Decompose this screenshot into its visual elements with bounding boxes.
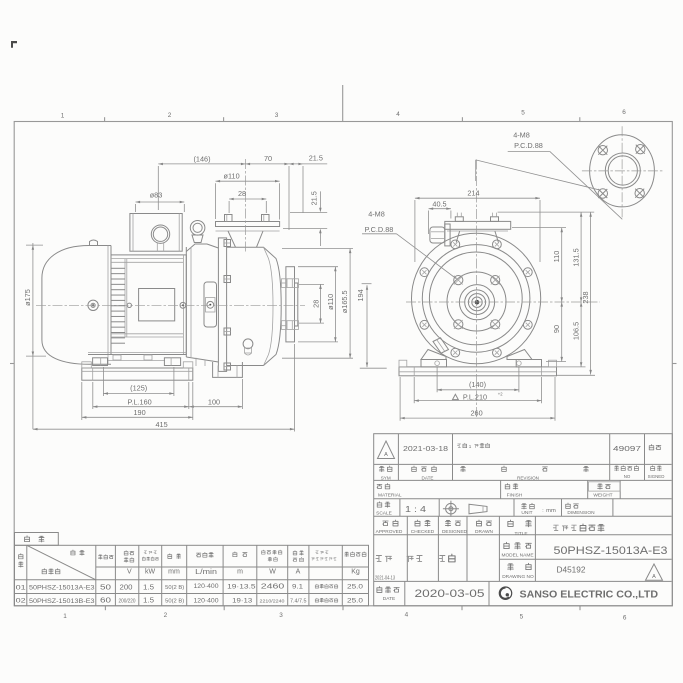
svg-text:4-M8: 4-M8 [513, 131, 530, 140]
svg-text:A: A [384, 452, 388, 458]
svg-text:mm: mm [546, 508, 556, 514]
svg-text:3: 3 [275, 112, 279, 119]
svg-text:1: 1 [469, 444, 472, 449]
svg-text:2021-03-18: 2021-03-18 [403, 444, 448, 453]
svg-text:2: 2 [164, 612, 168, 619]
svg-text:9.1: 9.1 [292, 584, 303, 591]
svg-text:49097: 49097 [613, 444, 641, 453]
mechanical seal housing [204, 282, 217, 327]
drive end bracket [186, 244, 218, 366]
svg-text:A: A [652, 574, 656, 580]
gland bolts 4-M8 [454, 276, 500, 330]
dim o175 fan cover [23, 243, 46, 429]
svg-text:SIGNED: SIGNED [648, 474, 665, 479]
svg-text:m: m [237, 569, 243, 576]
dim (125) motor feet [103, 367, 173, 396]
svg-text:2460: 2460 [261, 582, 285, 591]
front view centerlines [476, 160, 478, 420]
svg-text:01: 01 [16, 584, 27, 591]
spec table headers [18, 550, 366, 574]
discharge centerline [245, 159, 247, 252]
svg-text:P.L.160: P.L.160 [127, 398, 151, 407]
dim (146)/70/21.5 top [158, 153, 327, 230]
svg-text:1.5: 1.5 [143, 584, 154, 591]
dim 110 [552, 228, 563, 302]
dim P.L.210 [414, 377, 541, 403]
svg-text:200/220: 200/220 [119, 598, 136, 604]
suction flange bolts [282, 279, 299, 330]
svg-text:SANSO ELECTRIC CO.,LTD: SANSO ELECTRIC CO.,LTD [520, 589, 659, 600]
svg-text:190: 190 [134, 408, 146, 417]
svg-text:100: 100 [208, 398, 220, 407]
lower-left drain boss [433, 338, 449, 353]
svg-text:4-M8: 4-M8 [368, 210, 385, 219]
svg-text:6: 6 [623, 615, 627, 622]
svg-text:60: 60 [100, 598, 111, 605]
dim (140) [437, 368, 519, 393]
flange detail bore circles [605, 153, 640, 188]
label 4-M8 PCD88 detail [508, 131, 550, 152]
svg-text:40.5: 40.5 [432, 199, 446, 208]
svg-text:FINISH: FINISH [507, 493, 523, 499]
motor frame body [111, 246, 186, 355]
svg-text:3: 3 [279, 612, 283, 619]
svg-text:P.L.210: P.L.210 [463, 393, 487, 402]
date row [377, 587, 485, 602]
dim 190 base length [82, 382, 193, 420]
dim 131.5 [571, 212, 582, 302]
front view casing rim circle [422, 245, 530, 353]
side border zone ticks [10, 363, 677, 365]
front view casing outer profile [412, 233, 541, 364]
svg-text:50(2 B): 50(2 B) [165, 585, 184, 591]
casing plate bolts [224, 240, 231, 371]
dim 28 suction bolts vertical [299, 284, 324, 323]
svg-text:28: 28 [238, 189, 246, 198]
svg-text:260: 260 [471, 409, 483, 418]
svg-text::: : [542, 508, 543, 514]
label 4-M8 PCD88 front view [362, 210, 456, 279]
svg-text:4: 4 [396, 111, 400, 118]
motor frame mid mark [180, 302, 186, 308]
svg-text:DRAWING NO: DRAWING NO [502, 574, 534, 580]
svg-text:200: 200 [120, 583, 133, 592]
svg-text:4: 4 [405, 612, 409, 619]
front view rim bolts [420, 240, 532, 357]
revision header row [379, 466, 664, 481]
dim 415 overall length [33, 344, 295, 432]
svg-text:1: 1 [61, 113, 65, 120]
top zone numbers 1-6 [61, 109, 627, 119]
front view cover plate circle [429, 252, 522, 345]
svg-text:21.5: 21.5 [310, 191, 319, 205]
svg-text:7.4/7.5: 7.4/7.5 [290, 598, 307, 604]
spec table units row [127, 569, 360, 576]
drawing sheet border frame [14, 122, 672, 606]
pump centerline left view [36, 304, 305, 306]
discharge flange bolts [225, 215, 270, 222]
svg-text:DATE: DATE [383, 596, 395, 602]
svg-text:50PHSZ-15013A-E3: 50PHSZ-15013A-E3 [29, 585, 95, 592]
material finish weight row [377, 482, 620, 499]
svg-text:mm: mm [168, 569, 180, 576]
front view base bed [399, 360, 557, 376]
spec table row 02 [16, 597, 364, 605]
dim o110 suction vertical [298, 267, 338, 342]
lifting eyebolt [190, 221, 205, 243]
spec table tab [15, 533, 59, 546]
motor feet [88, 353, 186, 366]
dim o83 terminal box [136, 190, 185, 212]
svg-text:ø110: ø110 [224, 172, 240, 181]
svg-text:28: 28 [311, 300, 320, 308]
svg-text:2: 2 [168, 112, 172, 119]
svg-text:19·13: 19·13 [232, 598, 253, 605]
fan cover top plug [90, 240, 98, 246]
svg-text:1.5: 1.5 [143, 598, 154, 605]
svg-text:1 : 4: 1 : 4 [405, 504, 426, 514]
svg-text:19·13.5: 19·13.5 [227, 583, 256, 590]
svg-text:MATERIAL: MATERIAL [378, 493, 402, 499]
svg-text:WEIGHT: WEIGHT [593, 493, 612, 499]
svg-text:ø110: ø110 [326, 294, 335, 310]
scan speck top-left [11, 41, 17, 48]
flange detail outer circle [590, 135, 655, 207]
dim 238 [581, 212, 592, 374]
svg-text:UNIT: UNIT [521, 510, 532, 516]
svg-text:TITLE: TITLE [514, 531, 527, 537]
approval header row [376, 520, 532, 537]
dim P.L.160 base slots [93, 382, 189, 409]
title value [553, 525, 558, 530]
dim 100 casing foot [189, 379, 242, 409]
terminal box conduit hole [151, 225, 169, 251]
svg-text:+2: +2 [498, 391, 503, 396]
front discharge flange plate [445, 221, 511, 231]
svg-text:131.5: 131.5 [571, 248, 580, 266]
dim 106.5 [571, 302, 582, 367]
motor cooling fins [111, 268, 125, 343]
svg-text:50PHSZ-15013B-E3: 50PHSZ-15013B-E3 [29, 598, 95, 605]
svg-text:415: 415 [156, 420, 168, 429]
svg-text:2021-04-13: 2021-04-13 [375, 575, 395, 581]
dim 90 [552, 302, 563, 362]
svg-text:70: 70 [264, 154, 272, 163]
svg-text:106.5: 106.5 [571, 322, 580, 340]
svg-text:2210/2240: 2210/2240 [260, 598, 285, 604]
dim 260 [400, 377, 555, 421]
dim o110 discharge flange [216, 172, 280, 220]
svg-text:W: W [269, 569, 276, 576]
revision row [378, 441, 661, 459]
company logo [499, 587, 658, 600]
svg-text:(125): (125) [130, 383, 147, 392]
discharge neck [228, 231, 263, 247]
terminal box [130, 214, 182, 252]
svg-text:02: 02 [16, 598, 27, 605]
bottom zone numbers 1-6 [63, 612, 627, 622]
top border zone ticks [105, 85, 580, 122]
svg-text:P.C.D.88: P.C.D.88 [365, 225, 394, 234]
left view: motor fan cover [42, 246, 111, 365]
svg-text:DRAWN: DRAWN [475, 529, 493, 535]
bottom border zone ticks [105, 606, 580, 610]
leader lines to detail [476, 151, 623, 219]
svg-text:REVISION: REVISION [517, 475, 539, 480]
svg-text:120·400: 120·400 [194, 597, 220, 604]
flange detail centerlines [582, 126, 663, 217]
title block grid [374, 434, 673, 606]
svg-text:ø83: ø83 [150, 190, 163, 199]
flange detail bolt holes [598, 145, 645, 199]
svg-text:Kg: Kg [351, 569, 360, 576]
svg-text:5: 5 [521, 110, 525, 117]
svg-text:DESIGNED: DESIGNED [442, 529, 468, 535]
svg-text:SCALE: SCALE [376, 511, 392, 517]
svg-text:L/min: L/min [195, 569, 217, 576]
front view gland circle [447, 272, 506, 331]
svg-text:21.5: 21.5 [309, 153, 323, 162]
priming plug hex fitting [430, 224, 450, 246]
dim o165.5 casing vertical [282, 249, 353, 359]
suction flange [281, 267, 298, 342]
svg-text:50PHSZ-15013A-E3: 50PHSZ-15013A-E3 [554, 545, 668, 557]
dim 194 overall height [356, 284, 387, 369]
front view shaft circles [459, 285, 494, 320]
motor bearing boss left [88, 300, 98, 310]
signatures [375, 554, 455, 581]
motor shaft center mark [127, 303, 131, 307]
casing back plate [218, 238, 226, 372]
svg-text:50(2 B): 50(2 B) [165, 599, 184, 605]
scale row [376, 501, 595, 517]
svg-text:5: 5 [520, 614, 524, 621]
svg-text:25.0: 25.0 [347, 597, 363, 604]
front flange studs [455, 213, 498, 222]
dim 40.5 [429, 199, 451, 234]
svg-text:25.0: 25.0 [347, 584, 363, 591]
svg-text:2020-03-05: 2020-03-05 [415, 588, 485, 600]
svg-text:ø165.5: ø165.5 [340, 290, 349, 313]
svg-text:DIMENSION: DIMENSION [567, 510, 595, 516]
model name row [501, 542, 667, 558]
drawing no row [502, 563, 662, 580]
dim 214 [415, 189, 540, 262]
svg-text:(146): (146) [193, 154, 210, 163]
svg-text:A: A [296, 569, 301, 576]
discharge flange left view [216, 222, 280, 232]
pump casing shell [227, 247, 282, 365]
svg-text:DATE: DATE [422, 475, 434, 480]
spec table grid [15, 545, 369, 606]
svg-text:NO: NO [624, 474, 631, 479]
svg-text:APPROVED: APPROVED [376, 529, 403, 535]
svg-text:1: 1 [63, 613, 67, 620]
svg-text:90: 90 [552, 325, 561, 333]
svg-text:110: 110 [552, 251, 561, 263]
front view feet [421, 350, 542, 367]
svg-text:CHECKED: CHECKED [411, 529, 435, 535]
dim 28 discharge bolts [229, 189, 266, 213]
svg-text:V: V [127, 569, 132, 576]
spec table row 01 [16, 582, 364, 592]
svg-text:SYM: SYM [381, 475, 391, 480]
svg-text:MODEL NAME: MODEL NAME [501, 553, 533, 559]
front right extension lines [498, 212, 595, 375]
front discharge neck [456, 231, 498, 242]
svg-text:120·400: 120·400 [194, 583, 220, 590]
svg-text:P.C.D.88: P.C.D.88 [514, 141, 543, 150]
casing foot [213, 362, 243, 377]
svg-text:50: 50 [100, 584, 111, 591]
svg-text:D45192: D45192 [557, 566, 586, 575]
svg-text:238: 238 [581, 291, 590, 303]
svg-text:6: 6 [622, 109, 626, 116]
svg-text:ø175: ø175 [23, 289, 32, 306]
motor nameplate [139, 289, 175, 321]
svg-text:214: 214 [467, 189, 479, 198]
svg-text:194: 194 [356, 289, 365, 301]
common base bed left view [82, 362, 193, 380]
svg-text:kW: kW [145, 569, 156, 576]
casing drain plug [243, 339, 253, 355]
dim 21.5 vertical right of casing [283, 191, 327, 246]
svg-text:(140): (140) [469, 380, 486, 389]
